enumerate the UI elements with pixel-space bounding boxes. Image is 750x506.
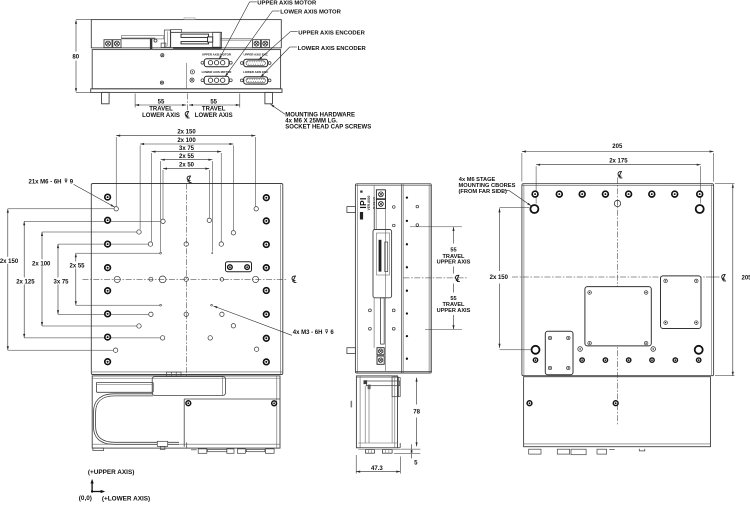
front view: small tab on top edge bbox=[184, 18, 195, 20]
side housing: encoder bar bbox=[398, 378, 401, 397]
front view: slide mechanism main body bbox=[171, 32, 222, 47]
leader + label 4x M3 - 6H depth 6 bbox=[213, 306, 291, 335]
side view: top edge inner line bbox=[356, 184, 431, 186]
svg-text:2x 55: 2x 55 bbox=[69, 264, 85, 270]
bottom view: horizontal centerline bbox=[512, 276, 706, 278]
svg-text:3x 75: 3x 75 bbox=[53, 280, 69, 286]
svg-text:LOWER AXIS MOTOR: LOWER AXIS MOTOR bbox=[280, 10, 341, 16]
plan housing: right inner edge bbox=[276, 376, 278, 448]
svg-text:2x 150: 2x 150 bbox=[490, 275, 509, 281]
side view: rails from clamp to motor bbox=[373, 208, 375, 229]
plan view: horizontal centerline bbox=[83, 278, 288, 280]
svg-text:55: 55 bbox=[158, 100, 165, 106]
svg-text:2x 100: 2x 100 bbox=[177, 138, 196, 144]
side view: bottom band bbox=[355, 370, 431, 372]
side view: top clamp block 1 bbox=[376, 190, 385, 199]
svg-text:(FROM FAR SIDE): (FROM FAR SIDE) bbox=[459, 189, 507, 195]
plan view: vertical centerline bbox=[185, 184, 187, 378]
side view: left upper tab bbox=[347, 207, 356, 213]
connector J2 lower axis motor bbox=[204, 76, 229, 84]
travel dimension extension lines bbox=[410, 226, 462, 228]
plan housing: interface tab bbox=[167, 372, 181, 376]
plan housing: cable loop inner edge bbox=[96, 396, 179, 442]
svg-text:55: 55 bbox=[450, 296, 456, 302]
svg-text:TRAVEL: TRAVEL bbox=[202, 106, 226, 112]
dimension 80 (front view height) bbox=[76, 19, 91, 21]
side housing: coupling blobs bbox=[364, 380, 368, 384]
bottom view: top row of 8 cbore screws bbox=[532, 191, 538, 197]
svg-text:MADE US: MADE US bbox=[372, 197, 376, 209]
plan housing: left foot under housing bbox=[93, 448, 104, 451]
plan view: right column of 8 M6 cbore holes bbox=[264, 195, 270, 201]
side view: motor body bbox=[373, 230, 392, 298]
svg-text:UPPER AXIS: UPPER AXIS bbox=[437, 260, 471, 266]
svg-text:47.3: 47.3 bbox=[371, 465, 383, 472]
plan housing: cable loop outer edge bbox=[94, 394, 180, 445]
origin axes icon: vertical arrow (+UPPER AXIS) bbox=[91, 490, 93, 492]
side view: right grey edge band bbox=[429, 184, 432, 372]
callout leader: upper axis motor bbox=[250, 1, 257, 3]
callout leader: upper axis encoder bbox=[290, 31, 297, 33]
bottom view: left edge inner line bbox=[523, 185, 525, 376]
front view: outline of upper moving plate bbox=[91, 20, 281, 48]
dimension 47.3 (housing width, side view) bbox=[355, 455, 357, 474]
bottom view: centre top hole bbox=[614, 200, 620, 206]
front view: base strip bbox=[91, 89, 282, 93]
svg-text:UPPER AXIS MOTOR: UPPER AXIS MOTOR bbox=[202, 53, 232, 57]
centerline symbol between travel dims bbox=[185, 111, 189, 118]
svg-text:UPPER AXIS ENCODER: UPPER AXIS ENCODER bbox=[298, 30, 365, 36]
front view: left clamp block pair bbox=[104, 40, 112, 48]
plan view left dimension 2x 100 bbox=[41, 232, 43, 326]
dimension 78 (housing height, side view) bbox=[416, 378, 418, 382]
svg-text:2x 50: 2x 50 bbox=[179, 163, 195, 169]
svg-text:UPPER AXIS: UPPER AXIS bbox=[437, 308, 471, 314]
callout leader: mounting hardware bbox=[271, 104, 286, 114]
front view: face screw lower bbox=[160, 81, 163, 84]
bottom view: small cover plate (lower left) bbox=[545, 331, 573, 374]
connector J1 upper axis motor bbox=[204, 59, 229, 67]
plan view: centre row holes on horizontal centerline bbox=[114, 276, 120, 282]
side view: column of 8 black hole dots bbox=[406, 196, 408, 198]
centerline symbol right of bottom view bbox=[722, 274, 726, 281]
bottom view: centre cover plate bbox=[585, 287, 651, 346]
callout leader: lower axis motor bbox=[272, 10, 279, 12]
front view: mechanism dark base stripe bbox=[173, 47, 222, 49]
side housing: encoder block step bbox=[392, 377, 398, 397]
svg-text:SOCKET HEAD CAP SCREWS: SOCKET HEAD CAP SCREWS bbox=[285, 125, 371, 131]
svg-text:2x 175: 2x 175 bbox=[609, 158, 628, 164]
svg-text:TRAVEL: TRAVEL bbox=[149, 106, 173, 112]
front view: support post bbox=[150, 39, 152, 49]
svg-text:LOWER AXIS: LOWER AXIS bbox=[142, 113, 180, 119]
plan housing: narrow slide bar bbox=[96, 382, 153, 392]
plan housing: divider line near tab bbox=[186, 442, 188, 448]
front view: mechanism rail 2 bbox=[181, 42, 209, 44]
callout leader: lower axis encoder bbox=[290, 46, 297, 48]
connector J3 upper axis encoder bbox=[244, 59, 268, 66]
svg-text:2x 150: 2x 150 bbox=[0, 259, 19, 265]
leader + label 21x M6 - 6H depth 9 bbox=[74, 184, 115, 207]
front view: left arm band from clamps bbox=[122, 36, 164, 39]
side view: horizontal centerline bbox=[404, 277, 468, 279]
dimension 5 (foot height, side view) bbox=[401, 448, 421, 450]
bottom housing: bottom connector row bbox=[529, 449, 541, 454]
svg-text:55: 55 bbox=[210, 100, 217, 106]
plan view left dimension 2x 150 bbox=[7, 209, 9, 350]
bottom housing: screw left bbox=[527, 401, 532, 406]
svg-text:2x 125: 2x 125 bbox=[16, 280, 35, 286]
front view: gap line between plate and body bbox=[92, 47, 280, 49]
side view: top clamp block 2 bbox=[376, 199, 385, 208]
centerline symbol right of plan view bbox=[292, 276, 296, 283]
dimension 55 travel upper axis (bottom half) bbox=[453, 284, 455, 293]
side view: right hole circles top bbox=[416, 205, 419, 208]
front view: right foot bbox=[265, 92, 273, 103]
bottom housing: rim line bbox=[524, 443, 711, 445]
svg-text:205: 205 bbox=[741, 276, 750, 282]
plan housing: outline bbox=[92, 376, 280, 448]
front view: left foot bbox=[102, 92, 110, 103]
svg-text:205: 205 bbox=[612, 144, 623, 150]
side view: bottom clamp block 1 bbox=[377, 348, 384, 355]
origin axes icon: horizontal arrow (+LOWER AXIS) bbox=[92, 491, 103, 493]
connector J4 lower axis encoder bbox=[244, 77, 268, 84]
svg-text:78: 78 bbox=[413, 409, 420, 416]
plan view: clamp plate with two screws bbox=[226, 262, 252, 272]
plan housing: bottom rim line bbox=[92, 443, 280, 445]
side view: outer body bbox=[355, 184, 431, 373]
front view: pin symbol bbox=[190, 70, 194, 74]
front view: mechanism nut block bbox=[208, 37, 213, 42]
plan view left dimension 3x 75 bbox=[57, 244, 59, 314]
svg-text:3x 75: 3x 75 bbox=[179, 146, 195, 152]
side housing: left connector tick bbox=[351, 401, 353, 408]
plan housing: top inner line bbox=[92, 377, 280, 379]
side view: stage plate edge double line bbox=[401, 184, 403, 373]
plan housing: panel screw right bbox=[272, 401, 277, 406]
plan view left dimension 2x 125 bbox=[23, 221, 25, 338]
dimension 55 travel lower axis - left half bbox=[134, 94, 136, 108]
side view: bottom clamp block 2 bbox=[377, 356, 384, 364]
side view: left lower tab bbox=[347, 348, 356, 354]
plan view left dimension 2x 55 bbox=[75, 253, 77, 305]
dimension 55 travel upper axis (top half) bbox=[452, 227, 454, 231]
side view: motor inner bar 2 bbox=[385, 242, 388, 272]
side housing below side view bbox=[356, 376, 397, 448]
bottom view: top edge inner line bbox=[523, 185, 714, 187]
centerline symbol on travel dimension bbox=[455, 275, 459, 282]
plan view: bottom edge inner line bbox=[92, 371, 282, 373]
side housing: rim line bbox=[358, 442, 397, 444]
svg-text:LOWER AXIS: LOWER AXIS bbox=[195, 113, 233, 119]
front view: face screw upper bbox=[161, 54, 164, 57]
side view: motor inner outline bbox=[377, 233, 390, 275]
svg-text:(0,0): (0,0) bbox=[79, 495, 92, 502]
svg-text:(+LOWER AXIS): (+LOWER AXIS) bbox=[102, 496, 150, 503]
side housing: inner leg line bbox=[364, 386, 366, 443]
plan view: dowel/through holes ring pattern bbox=[114, 207, 118, 211]
plan view: small M3 points bbox=[160, 252, 162, 254]
front view: mechanism rail 1 bbox=[181, 34, 209, 37]
plan housing: panel screw left bbox=[186, 401, 191, 406]
svg-text:21x M6 - 6H: 21x M6 - 6H bbox=[29, 180, 62, 186]
bottom view: 4x M6 stage mounting cbores bbox=[530, 205, 538, 213]
plan housing: carriage block bbox=[152, 377, 225, 396]
front view: mechanism end block bbox=[213, 32, 221, 47]
side housing: foot left bbox=[366, 450, 375, 454]
svg-text:(+UPPER AXIS): (+UPPER AXIS) bbox=[88, 469, 134, 476]
bottom view: right edge inner line bbox=[711, 185, 713, 376]
svg-text:80: 80 bbox=[72, 53, 79, 60]
side housing: inner verticals bbox=[359, 376, 361, 448]
side view: lower push rod bbox=[381, 298, 385, 344]
side view: inner vertical line left bbox=[356, 184, 358, 373]
bottom housing: screw centre bbox=[613, 401, 618, 406]
front view: right clamp block pair bbox=[253, 40, 261, 48]
bottom housing: outline bbox=[524, 377, 711, 447]
centerline symbol above bottom view bbox=[618, 171, 622, 178]
svg-text:55: 55 bbox=[450, 248, 456, 254]
bottom view: base plate outline bbox=[522, 184, 714, 376]
centerline symbol above plan view bbox=[187, 176, 191, 183]
front view: rod from mechanism to right clamp blocks bbox=[220, 38, 252, 40]
front view: panel seam bbox=[186, 63, 188, 89]
plan housing: inner panel bbox=[183, 399, 185, 447]
plan view: stage top plate outline bbox=[91, 184, 282, 375]
side view: mid hole circles top bbox=[393, 206, 396, 209]
plan view: right edge inner line bbox=[279, 185, 281, 375]
side view: rail edge vertical line bbox=[373, 185, 375, 229]
bottom view: side screws flanking centre plate bbox=[578, 347, 583, 352]
side view: mid hole circles bottom bbox=[369, 309, 372, 312]
svg-text:LOWER AXIS ENCODER: LOWER AXIS ENCODER bbox=[298, 46, 367, 52]
side housing: top tab bbox=[366, 381, 399, 386]
svg-text:4x M3 - 6H: 4x M3 - 6H bbox=[293, 330, 323, 336]
front view: ground lug symbol bbox=[190, 78, 194, 82]
side view: inner vertical line mid bbox=[384, 190, 386, 371]
bottom view: bottom row screws bbox=[533, 358, 537, 362]
front view: mechanism left bracket bbox=[164, 30, 170, 47]
svg-text:2x 100: 2x 100 bbox=[32, 261, 51, 267]
front view: main body face bbox=[92, 50, 280, 89]
bottom view: right cover plate bbox=[661, 276, 702, 329]
svg-text:2x 55: 2x 55 bbox=[179, 154, 195, 160]
side housing: foot right bbox=[382, 450, 392, 454]
svg-text:2x 150: 2x 150 bbox=[177, 130, 196, 136]
side view: motor inner dark bar bbox=[379, 240, 382, 272]
plan housing: bottom connector row bbox=[191, 449, 197, 451]
plan housing: bottom centre tab bbox=[157, 441, 167, 446]
front view: mechanism hump bbox=[171, 30, 182, 33]
side view: motor label IPI logo (rotated) bbox=[358, 197, 368, 208]
svg-text:VER-8000: VER-8000 bbox=[367, 195, 371, 210]
svg-text:UPPER AXIS MOTOR: UPPER AXIS MOTOR bbox=[257, 1, 317, 7]
bottom view: vertical centerline bbox=[617, 178, 619, 426]
plan view: left column of 8 M6 cbore holes bbox=[105, 194, 111, 200]
